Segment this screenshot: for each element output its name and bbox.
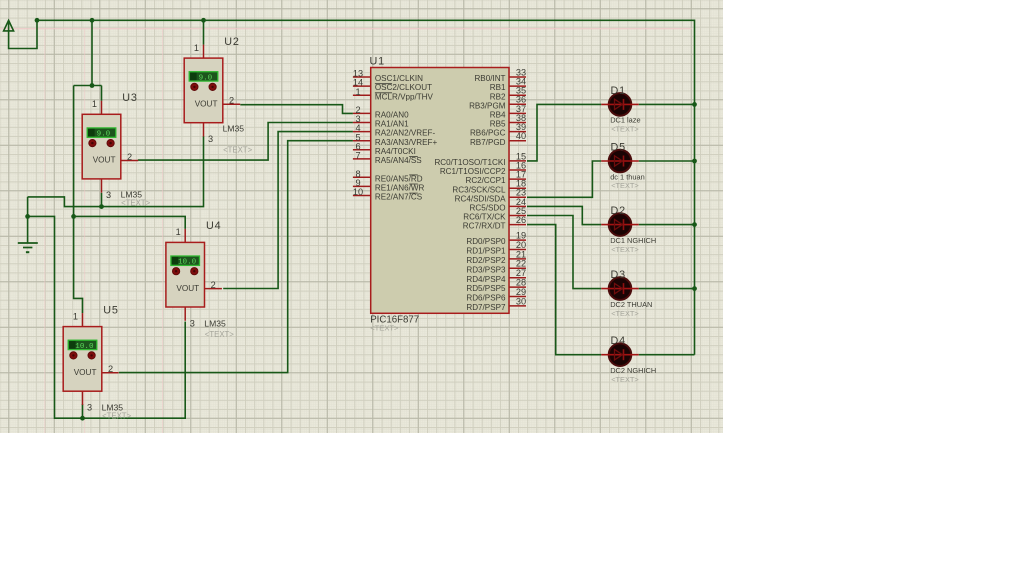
pin 3 RA1/AN1 [353,114,409,129]
wire D5 to rail [639,160,695,162]
wire U5 VOUT to RA3 [119,141,353,373]
svg-text:RC7/RX/DT: RC7/RX/DT [463,222,506,231]
svg-text:10.0: 10.0 [75,343,94,351]
junction rail node A feed [90,18,95,23]
svg-text:VOUT: VOUT [93,156,116,165]
pin 15 RC0/T1OSO/T1CKI [434,151,526,167]
svg-text:dc 1 thuan: dc 1 thuan [610,172,645,181]
wire node A to U5 pin 1 [74,86,83,314]
sensor U4 (LM35) [166,227,222,328]
wire RC6 to D3 [527,216,601,289]
wire U5 pin 3 drop [82,404,84,418]
pin 10 RE2/AN7/CS [353,187,423,202]
LED D5 [601,150,638,173]
svg-text:RC0/T1OSO/T1CKI: RC0/T1OSO/T1CKI [434,158,505,167]
wire U3 pin 3 drop [101,193,103,207]
wire rail to node A [91,20,93,85]
sheet guide line vertical B [84,29,86,433]
pin 23 RC4/SDI/SDA [455,188,526,204]
junction rail D1 [692,102,697,107]
sensor U5 (LM35) [63,311,118,412]
svg-text:RC1/T1OSI/CCP2: RC1/T1OSI/CCP2 [440,167,506,176]
wire RC5 to D2 [527,206,601,224]
pin 34 RB1 [490,77,526,93]
wire ground net lower [28,216,186,418]
wire RC4 to D5 [527,161,601,197]
sensor U3 (LM35) [82,99,138,200]
pin 13 OSC1/CLKIN [353,69,423,84]
svg-text:<TEXT>: <TEXT> [102,412,131,421]
svg-text:D1: D1 [611,85,626,97]
svg-text:RA1/AN1: RA1/AN1 [375,120,409,129]
svg-text:10.0: 10.0 [178,259,197,267]
svg-text:U3: U3 [122,92,137,104]
svg-text:RB2: RB2 [490,92,506,101]
svg-text:U1: U1 [370,55,385,67]
wire to U4 pin 1 [74,216,186,229]
svg-text:30: 30 [516,296,526,306]
svg-text:RB4: RB4 [490,111,506,120]
wire RC7 to D4 [527,225,601,355]
wire ground net upper [28,136,204,206]
pin 22 RD3/PSP3 [466,259,526,275]
svg-text:RB5: RB5 [490,120,506,129]
svg-text:<TEXT>: <TEXT> [611,181,639,190]
svg-text:DC2 THUAN: DC2 THUAN [610,300,652,309]
sheet guide line vertical A [44,29,46,433]
svg-text:40: 40 [516,131,526,141]
pin 17 RC2/CCP1 [465,170,526,186]
junction U5 pin 3 [80,416,85,421]
svg-text:VOUT: VOUT [176,284,199,293]
svg-text:2: 2 [127,152,132,162]
svg-text:9.0: 9.0 [97,131,111,139]
wire node A horizontal [74,85,102,87]
sensor U2 (LM35) [184,43,240,144]
svg-text:DC1 NGHICH: DC1 NGHICH [610,236,656,245]
svg-text:U2: U2 [224,36,239,48]
pin 18 RC3/SCK/SCL [452,179,526,195]
svg-text:RD7/PSP7: RD7/PSP7 [466,303,506,312]
svg-text:<TEXT>: <TEXT> [205,330,234,339]
svg-text:RA0/AN0: RA0/AN0 [375,111,409,120]
svg-text:2: 2 [229,96,234,106]
svg-text:RB6/PGC: RB6/PGC [470,129,506,138]
wire D2 to rail [639,224,695,226]
junction rail D2 [692,222,697,227]
svg-text:DC2 NGHICH: DC2 NGHICH [610,366,656,375]
sheet guide line horizontal [0,28,692,30]
svg-text:26: 26 [516,215,526,225]
svg-text:RE2/AN7/CS: RE2/AN7/CS [375,193,423,202]
wire rail to U2 pin 1 [203,20,205,44]
wire U4 VOUT to RA2 [223,132,353,289]
svg-text:9.0: 9.0 [199,74,213,82]
svg-text:<TEXT>: <TEXT> [611,125,639,134]
svg-text:RD3/PSP3: RD3/PSP3 [466,265,506,274]
wire power arrow stem [9,20,37,48]
LED D1 [601,93,638,116]
svg-text:D3: D3 [611,269,626,281]
svg-text:RA3/AN3/VREF+: RA3/AN3/VREF+ [375,138,438,147]
power symbol [4,20,14,31]
svg-text:LM35: LM35 [204,319,226,329]
svg-text:LM35: LM35 [223,123,245,133]
svg-text:RE1/AN6/WR: RE1/AN6/WR [375,184,425,193]
pin 4 RA2/AN2/VREF- [353,123,436,138]
junction node A column [71,214,76,219]
wire VCC top rail [37,20,695,354]
svg-text:RD5/PSP5: RD5/PSP5 [466,284,506,293]
pin 35 RB2 [490,86,526,102]
svg-text:D5: D5 [611,141,626,153]
svg-text:RB0/INT: RB0/INT [474,74,505,83]
wire ground column [27,197,29,243]
ground [18,243,38,252]
svg-text:VOUT: VOUT [195,100,218,109]
LED D4 [601,343,638,366]
pin 33 RB0/INT [474,67,526,83]
junction rail D5 [692,159,697,164]
pin 24 RC5/SDO [470,197,527,213]
pin 28 RD5/PSP5 [466,278,526,294]
svg-text:RC5/SDO: RC5/SDO [470,204,506,213]
svg-text:RC2/CCP1: RC2/CCP1 [465,176,506,185]
junction U3 pin 3 [99,204,104,209]
pin 9 RE1/AN6/WR [353,178,425,193]
wire D1 to rail [639,103,695,105]
pin 8 RE0/AN5/RD [353,169,423,184]
svg-text:1: 1 [92,99,97,109]
svg-text:2: 2 [108,364,113,374]
pin 26 RC7/RX/DT [463,215,526,231]
pin 16 RC1/T1OSI/CCP2 [440,160,526,176]
wire D3 to rail [639,288,695,290]
pin 38 RB5 [490,113,526,129]
svg-text:<TEXT>: <TEXT> [370,323,399,332]
svg-text:<TEXT>: <TEXT> [121,198,150,207]
svg-text:RD4/PSP4: RD4/PSP4 [466,275,506,284]
junction ground column [25,214,30,219]
pin 25 RC6/TX/CK [463,206,526,222]
svg-text:RC6/TX/CK: RC6/TX/CK [463,213,506,222]
pin 1 MCLR/Vpp/THV [353,87,434,102]
svg-text:1: 1 [73,311,78,321]
svg-text:OSC2/CLKOUT: OSC2/CLKOUT [375,83,432,92]
svg-text:10: 10 [353,187,363,197]
pin 39 RB6/PGC [470,122,526,138]
svg-text:RB7/PGD: RB7/PGD [470,138,506,147]
svg-text:D2: D2 [611,205,626,217]
pin 29 RD6/PSP6 [466,287,526,303]
LED D2 [601,213,638,236]
wire U3 VOUT to RA1 [138,123,353,161]
svg-text:DC1 laze: DC1 laze [610,116,640,125]
pin 19 RD0/PSP0 [466,231,526,247]
pin 30 RD7/PSP7 [466,296,526,312]
wire D4 to rail [639,354,695,356]
svg-text:U5: U5 [103,304,118,316]
svg-text:MCLR/Vpp/THV: MCLR/Vpp/THV [375,92,434,101]
svg-text:OSC1/CLKIN: OSC1/CLKIN [375,74,423,83]
svg-text:<TEXT>: <TEXT> [611,309,639,318]
pin 27 RD4/PSP4 [466,268,526,284]
sheet guide line vertical C [161,29,163,433]
svg-text:RC3/SCK/SCL: RC3/SCK/SCL [452,185,506,194]
svg-text:3: 3 [208,134,213,144]
wire RC0 to D1 [527,104,601,160]
svg-text:RD6/PSP6: RD6/PSP6 [466,294,506,303]
svg-text:VOUT: VOUT [74,368,97,377]
svg-text:1: 1 [176,227,181,237]
svg-text:1: 1 [194,43,199,53]
svg-text:RE0/AN5/RD: RE0/AN5/RD [375,174,423,183]
svg-text:RA2/AN2/VREF-: RA2/AN2/VREF- [375,129,436,138]
svg-text:2: 2 [211,280,216,290]
pin 6 RA4/T0CKI [353,141,416,156]
svg-text:3: 3 [106,190,111,200]
svg-text:D4: D4 [611,335,626,347]
pin 37 RB4 [490,104,526,120]
svg-text:RC4/SDI/SDA: RC4/SDI/SDA [455,194,506,203]
wire U2 VOUT to RA0 [240,105,353,114]
pin 40 RB7/PGD [470,131,526,147]
wire node A to U3 pin 1 [101,86,103,101]
svg-text:3: 3 [190,318,195,328]
svg-text:RA5/AN4/SS: RA5/AN4/SS [375,156,422,165]
microcontroller U1 PIC16F877 [371,68,509,314]
pin 36 RB3/PGM [469,95,526,111]
svg-text:<TEXT>: <TEXT> [611,375,639,384]
junction node A [90,83,95,88]
pin 21 RD2/PSP2 [466,249,526,265]
svg-text:3: 3 [87,403,92,413]
pin 5 RA3/AN3/VREF+ [353,132,438,147]
svg-text:RD2/PSP2: RD2/PSP2 [466,256,506,265]
svg-text:RD0/PSP0: RD0/PSP0 [466,237,506,246]
junction rail-arrow [35,18,40,23]
pin 7 RA5/AN4/SS [353,151,422,166]
svg-text:1: 1 [355,87,360,97]
svg-text:RB1: RB1 [490,83,506,92]
svg-text:RD1/PSP1: RD1/PSP1 [466,247,506,256]
svg-text:U4: U4 [206,220,221,232]
LED D3 [601,277,638,300]
svg-text:RA4/T0CKI: RA4/T0CKI [375,147,416,156]
junction rail U2 pin 1 [201,18,206,23]
svg-text:7: 7 [355,151,360,161]
junction rail D3 [692,286,697,291]
pin 20 RD1/PSP1 [466,240,526,256]
svg-text:<TEXT>: <TEXT> [611,245,639,254]
svg-text:RB3/PGM: RB3/PGM [469,101,506,110]
pin 2 RA0/AN0 [353,105,409,120]
svg-text:<TEXT>: <TEXT> [223,145,252,154]
pin 14 OSC2/CLKOUT [353,78,432,93]
